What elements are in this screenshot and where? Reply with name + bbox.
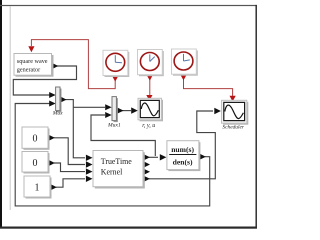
arrowhead into Mux input 1 (49, 92, 56, 98)
wire: Mux1 output to scope r,y,u (122, 110, 131, 112)
arrowhead stub at TrueTime Kernel output 3 (143, 169, 150, 175)
wire: constant 1 to TrueTime Kernel input 4 (56, 179, 85, 187)
svg-text:Scheduler: Scheduler (222, 125, 244, 131)
arrowhead at square wave generator output port (52, 63, 58, 69)
red wire: clock 3 to Scheduler scope (184, 78, 233, 96)
arrowhead into Mux1 input 1 (105, 104, 112, 110)
arrowhead into TrueTime Kernel input 3 (86, 168, 93, 174)
block: scope r,y,u (138, 98, 163, 129)
svg-text:0: 0 (33, 134, 38, 145)
red arrowhead into square wave generator top (28, 46, 34, 52)
arrowhead into TrueTime Kernel input 1 (86, 155, 93, 161)
block: Scheduler scope (222, 100, 249, 130)
wire: constant 0 (second) to TrueTime Kernel input 3 (54, 163, 85, 172)
red arrowhead into scope r,y,u top (146, 95, 152, 101)
svg-text:1: 1 (35, 183, 40, 194)
block: square wave generator (14, 54, 54, 77)
arrowhead at TrueTime Kernel output 4 (143, 176, 150, 182)
svg-text:num(s): num(s) (171, 145, 194, 154)
svg-text:square wave: square wave (17, 58, 48, 65)
arrowhead into TrueTime Kernel input 2 (86, 161, 93, 167)
svg-text:Kernel: Kernel (101, 167, 123, 176)
arrowhead into Scheduler scope input (214, 108, 221, 114)
svg-text:Mux1: Mux1 (107, 123, 121, 129)
wire: plant feedback from num/den output around bottom to Mux input 2 (15, 104, 210, 206)
block: clock 3 (172, 49, 198, 76)
arrowhead at Mux1 output port (117, 107, 124, 113)
wire: constant 0 (first) to TrueTime Kernel input 2 (54, 138, 85, 165)
arrowhead into Mux1 input 2 (105, 112, 112, 118)
arrowhead at num(s)/den(s) output port (199, 154, 206, 160)
wire: TrueTime Kernel output 1 to num(s)/den(s) input (149, 156, 158, 158)
block: Mux (left tall mux) (52, 87, 63, 117)
svg-text:generator: generator (17, 66, 40, 73)
block: transfer function num(s)/den(s) (167, 141, 201, 171)
red port arrow below clock 3 (180, 75, 186, 81)
block: constant 1 (24, 176, 52, 199)
block: clock 2 (138, 50, 164, 77)
svg-text:TrueTime: TrueTime (101, 157, 132, 166)
wire: control signal tap up to Mux1 input 2 (91, 115, 155, 156)
arrowhead into TrueTime Kernel input 4 (86, 176, 93, 182)
red wire: clock 1 trigger to square wave generator (31, 40, 115, 89)
svg-text:0: 0 (33, 158, 38, 169)
wire: TrueTime Kernel schedule output 4 routed up to Scheduler scope (149, 111, 215, 179)
arrowhead at TrueTime Kernel output 1 (143, 154, 150, 160)
svg-text:den(s): den(s) (173, 157, 193, 166)
arrowhead into Mux input 2 (49, 101, 56, 107)
arrowhead into num(s)/den(s) input (160, 154, 167, 160)
red wire: clock 2 down to scope r,y,u (149, 78, 151, 96)
block: constant 0 (first) (22, 127, 50, 150)
red port arrow below clock 2 (147, 75, 153, 81)
wire: square wave generator output routed around to Mux input 1 (13, 66, 76, 95)
arrowhead at Mux output port (60, 96, 67, 103)
arrowhead stub at TrueTime Kernel output 2 (143, 161, 150, 167)
block: clock 1 (103, 50, 129, 77)
block: constant 0 (second) (22, 152, 50, 174)
arrowhead at constant 0 (second) output (48, 160, 55, 166)
arrowhead into scope r,y,u input (131, 107, 138, 113)
arrowhead at constant 0 (first) output (48, 135, 55, 141)
wire: Mux output down to TrueTime Kernel input 1 (65, 100, 85, 158)
red arrowhead into Scheduler scope top (230, 96, 236, 102)
wire: branch from Mux output vertical to Mux1 input 1 (73, 106, 105, 108)
svg-text:r, y, u: r, y, u (142, 123, 155, 129)
red port arrow below clock 1 (112, 76, 118, 82)
block: TrueTime Kernel (93, 151, 145, 189)
arrowhead at constant 1 output (50, 184, 57, 190)
svg-text:Mux: Mux (52, 111, 63, 117)
block: Mux1 (second mux) (107, 97, 121, 129)
